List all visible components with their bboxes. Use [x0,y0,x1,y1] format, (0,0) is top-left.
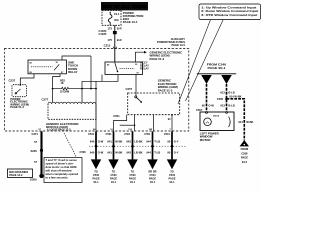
off-page arrow A [91,159,101,184]
svg-text:C271: C271 [32,132,39,136]
svg-text:C508: C508 [80,150,87,154]
wire logic out 4 [171,115,173,131]
GEM module label [46,122,80,129]
svg-text:C500: C500 [93,173,100,177]
svg-text:PAGE: PAGE [129,176,136,180]
motor pin bumps [205,112,228,113]
relay K2 coil dashed [120,67,135,69]
one touch down relay label [68,60,78,74]
svg-text:C277: C277 [42,98,49,102]
svg-text:7: 7 [170,129,172,131]
wire relay K1 pin86 to C237 [20,74,34,85]
svg-text:TO: TO [131,169,135,173]
C501 connector labels row [88,132,170,136]
svg-text:TO: TO [112,169,116,173]
wire relay K2 pin86 stub [101,75,103,82]
legend callout box [199,4,261,20]
connector C212 [104,43,117,48]
svg-text:C504: C504 [169,173,176,177]
svg-text:FROM: FROM [241,147,249,151]
svg-text:PAGE 51-3: PAGE 51-3 [150,57,165,61]
svg-text:94-1: 94-1 [93,180,99,184]
svg-text:85: 85 [107,64,110,66]
svg-text:W-BK: W-BK [115,140,122,144]
svg-text:944: 944 [146,150,151,154]
wire logic out 2 jog to pin 193 [134,115,136,131]
switch contact inside [16,89,21,93]
svg-text:PAGE 90-1: PAGE 90-1 [208,66,226,70]
resistor R1 wire with inline zigzag [53,87,96,90]
wire relay K2 pin86 down long [95,81,97,131]
fuse F2.1 [108,12,112,26]
svg-text:will shut off window: will shut off window [45,169,73,173]
wire motor feed left (thick dashed) [206,84,208,112]
wire branch 914 to rear (thick dashed) [227,99,245,140]
node pin C237 [19,84,21,86]
svg-text:PAGE 13-4: PAGE 13-4 [123,20,138,24]
svg-text:PAGE 51-3: PAGE 51-3 [158,89,173,93]
svg-text:PAGE: PAGE [149,176,156,180]
relay K1 coil dashed line [31,66,53,68]
harness wire 941 (thick) [113,131,115,159]
svg-text:LB-BK: LB-BK [134,150,142,154]
svg-text:C257: C257 [126,87,133,91]
node resistor to vertical [95,88,97,90]
GEM window logic box (dashed) [128,93,180,115]
svg-text:speed of driver's win-: speed of driver's win- [46,162,74,166]
svg-text:T-LB: T-LB [154,140,160,144]
svg-text:941: 941 [107,150,112,154]
svg-text:94-1: 94-1 [130,180,136,184]
svg-text:C508: C508 [241,151,248,155]
relay K2 pin labels [107,64,140,74]
harness wire 90 (thick) [171,131,173,159]
svg-text:RELAY: RELAY [140,66,149,70]
off-page arrow C [127,159,137,184]
wire down to resistor bus [90,56,92,89]
header HOT AT ALL TIMES [101,2,148,10]
off-page arrow D [147,159,157,184]
wire relay K2 pin30 up with arrow to GEM note [135,52,144,62]
svg-text:W-BK: W-BK [115,150,122,154]
power distribution box (dashed) [102,11,121,26]
auxiliary fuse note (top right, above GEM box) [157,37,186,47]
node link bar [134,124,136,126]
svg-text:40A: 40A [114,18,119,22]
svg-text:B-R: B-R [117,38,122,42]
svg-text:B-LB: B-LB [228,104,234,108]
window safety switch box (dashed) [12,85,27,97]
svg-text:when completely opened: when completely opened [45,172,79,176]
svg-text:C500: C500 [110,173,117,177]
off-page arrow E [167,159,177,184]
svg-text:O-Y: O-Y [174,140,179,144]
splice dashed line across harness [89,145,186,147]
svg-text:943: 943 [126,140,131,144]
svg-text:C501: C501 [144,132,151,136]
svg-text:1K: 1K [61,82,64,85]
from C240 source note [207,63,227,70]
source arrow G [221,75,232,84]
svg-text:940: 940 [90,150,95,154]
wire relay K1 pin85 down jog [53,74,60,102]
wire labels row 2 [90,150,179,154]
svg-text:914 W-BK: 914 W-BK [229,95,241,99]
node resistor bus crossing [81,88,83,90]
svg-text:943: 943 [126,150,131,154]
svg-text:94-1: 94-1 [169,180,175,184]
wire resistor branch down to GEM pin [81,81,83,102]
svg-text:C1035: C1035 [99,32,107,36]
window logic switch [135,96,142,103]
ground G200 [39,174,43,178]
relay K1 switch [54,64,59,70]
svg-text:94-1: 94-1 [150,180,156,184]
accy delay relay K2 box [105,62,143,75]
power distribution box label [123,11,144,24]
legend callout line 2 [186,20,224,101]
pin number labels above GEM bottom edge [39,129,172,131]
GEM outer boundary (dashed) [5,49,189,132]
svg-text:O-W: O-W [98,150,104,154]
svg-text:PAGE: PAGE [241,156,248,160]
node junction at resistor tap [52,88,54,90]
svg-text:914: 914 [238,120,243,124]
svg-text:O-Y: O-Y [174,150,179,154]
svg-text:C500: C500 [129,173,136,177]
left front window motor box [200,112,234,131]
connector C1034/C1035 inline [99,29,117,36]
svg-text:C237: C237 [9,79,16,83]
wire ground feed (thick) [40,131,42,174]
wire logic link bar [120,124,135,126]
svg-text:PAGE 13-5: PAGE 13-5 [171,43,185,47]
resistor R1 labels [60,80,69,94]
svg-text:B-R: B-R [117,27,122,31]
svg-text:913: 913 [220,104,225,108]
wire fuse output down to accy delay relay [114,25,116,62]
BW grounds reference box [8,169,33,178]
svg-text:PAGE 51-3: PAGE 51-3 [10,105,24,109]
wire logic out 1 jog to pin 10 [114,115,127,131]
svg-text:30: 30 [56,62,59,64]
left power window motor label [200,131,220,142]
wire label 175 B-R lower [108,38,122,42]
harness wire 944 (thick) [152,131,154,159]
motor brush arc [229,117,231,128]
svg-text:C501: C501 [106,132,113,136]
svg-text:in a few seconds.: in a few seconds. [46,176,69,180]
splice nodes on harness wires [95,145,174,148]
svg-text:940: 940 [90,140,95,144]
note callout dashed line [64,133,77,158]
wire labels row 1 [90,140,179,144]
wire relay K2 pin85 jog left down [82,75,118,82]
svg-text:30: 30 [135,64,138,66]
svg-text:dow motor so that GEM: dow motor so that GEM [46,165,78,169]
svg-text:F: F [206,77,208,81]
svg-text:36012: 36012 [213,116,220,118]
svg-text:941: 941 [107,140,112,144]
wire label 914 W-BK lower [238,120,253,124]
svg-text:T-LB: T-LB [154,150,160,154]
svg-text:3: OTD Window Command Input: 3: OTD Window Command Input [201,13,257,17]
svg-text:TO: TO [170,169,174,173]
svg-text:90: 90 [168,118,171,121]
svg-text:C501: C501 [88,132,95,136]
svg-text:TO: TO [94,169,98,173]
svg-text:C212: C212 [104,43,111,47]
svg-text:G200: G200 [30,178,37,182]
svg-text:C501: C501 [124,132,131,136]
svg-text:F2.1: F2.1 [114,12,120,16]
source arrow H (up, from rear) [240,140,249,164]
accy delay relay label [140,60,149,70]
note box 7 and 77 [44,158,82,183]
svg-text:94-3: 94-3 [242,160,248,164]
GEM wiring note A [150,50,184,61]
connector C505 and branch node [217,97,228,101]
off-page arrow B [108,159,118,184]
svg-text:C501: C501 [113,114,120,118]
relay K2 switch [115,63,118,72]
svg-text:913: 913 [220,90,225,94]
svg-text:90: 90 [167,150,170,154]
wire labels row near motor [202,104,235,108]
splice S206 [40,149,43,152]
wire label 175 B-R upper [108,27,122,31]
svg-text:22 OHM: 22 OHM [60,91,69,94]
connector C277 scalloped pin row [48,102,96,104]
legend callout line 1 [178,20,211,104]
GEM wiring note B [158,79,178,93]
svg-text:90: 90 [202,104,205,108]
svg-text:RELAY: RELAY [68,70,78,74]
svg-text:C501: C501 [164,132,171,136]
GEM module box (dashed) [48,104,96,119]
node relay feed/resistor bus [90,88,92,90]
svg-text:RR DR: RR DR [148,169,156,173]
motor M1 symbol [204,118,212,126]
svg-text:O-W: O-W [208,104,214,108]
svg-text:57: 57 [34,160,37,164]
from C240 bus line [197,73,236,75]
wire relay K1 pin30 up and over [62,56,91,60]
svg-text:94-1: 94-1 [111,180,117,184]
svg-text:S206: S206 [31,149,38,153]
svg-text:HOT AT ALL TIMES: HOT AT ALL TIMES [103,4,147,9]
relay K1 pin labels [30,62,65,74]
svg-text:MOTOR: MOTOR [200,138,212,142]
harness wire 943 (thick) [132,131,134,159]
wire motor feed right (thick dashed) [226,84,228,112]
svg-text:86: 86 [30,62,33,64]
harness wire 940 (thick) [95,131,97,159]
svg-text:PAGE: PAGE [92,176,99,180]
svg-text:175: 175 [108,27,113,31]
svg-text:7 and 77: Used to sense: 7 and 77: Used to sense [46,158,78,162]
svg-text:B-LB: B-LB [228,90,234,94]
svg-text:W-BK: W-BK [246,120,253,124]
window safety switch label [10,97,29,109]
wire logic out 3 [153,115,155,131]
svg-text:C504: C504 [149,173,156,177]
svg-text:PAGE: PAGE [110,176,117,180]
svg-text:175: 175 [108,38,113,42]
wire label 913 B-LB upper [220,90,234,94]
svg-text:PAGE: PAGE [168,176,175,180]
wire relay K2 pin87 down to window logic [135,75,137,96]
svg-text:LB-BK: LB-BK [134,140,142,144]
svg-text:E: E [171,162,173,166]
source arrow F [201,75,212,84]
svg-text:BW GROUNDS: BW GROUNDS [9,170,28,174]
svg-text:199: 199 [149,129,153,131]
svg-text:C505: C505 [217,97,224,101]
svg-text:PAGE 14-2: PAGE 14-2 [9,173,23,177]
one touch down relay K1 box [28,60,67,74]
svg-text:90: 90 [167,140,170,144]
svg-text:57: 57 [34,140,37,144]
svg-text:4 LOOSE PAGE 51-3: 4 LOOSE PAGE 51-3 [47,129,71,132]
svg-text:O-W: O-W [98,140,104,144]
svg-text:944: 944 [146,140,151,144]
node pin 7 [171,114,173,116]
